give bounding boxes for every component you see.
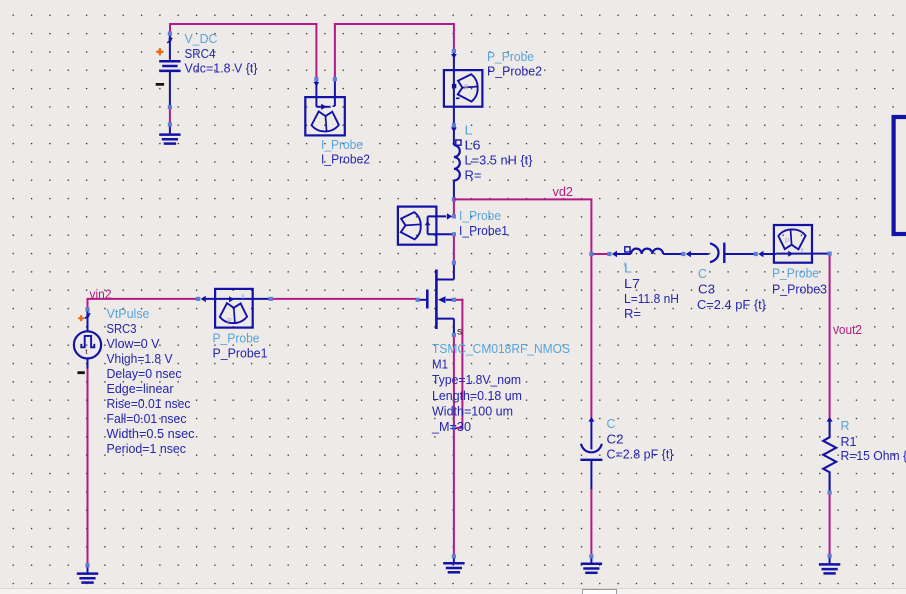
power probe P_Probe3: [754, 225, 832, 263]
label L7 (value L=11.8 nH): [624, 261, 679, 322]
svg-text:V_DC: V_DC: [185, 31, 218, 46]
capacitor C2: [580, 417, 602, 554]
svg-text:I_Probe2: I_Probe2: [321, 152, 370, 167]
current probe I_Probe1: [398, 207, 456, 245]
net label vout2: [833, 322, 862, 337]
svg-text:P_Probe: P_Probe: [487, 49, 534, 64]
net label vin2: [90, 287, 112, 302]
power probe P_Probe2: [444, 49, 483, 132]
svg-text:Rise=0.01 nsec: Rise=0.01 nsec: [107, 396, 191, 411]
voltage source SRC4 V_DC (battery): [156, 32, 181, 110]
svg-text:L6: L6: [465, 138, 481, 153]
label P_Probe1: [213, 331, 268, 361]
svg-text:M1: M1: [432, 357, 448, 372]
svg-text:C: C: [607, 416, 616, 431]
wire: R1 to ground: [829, 495, 831, 554]
svg-text:L=3.5 nH {t}: L=3.5 nH {t}: [465, 153, 534, 168]
svg-text:Period=1 nsec: Period=1 nsec: [107, 441, 187, 456]
svg-text:_M=30: _M=30: [431, 419, 471, 434]
svg-text:R=: R=: [624, 306, 641, 321]
svg-text:P_Probe2: P_Probe2: [487, 64, 542, 79]
svg-text:P: P: [464, 85, 469, 92]
ground below R1: [819, 554, 840, 574]
svg-text:C2: C2: [607, 432, 624, 447]
partial component frame at right edge: [892, 115, 906, 236]
wire: P_Probe1 to M1 gate: [273, 298, 416, 300]
svg-text:C=2.8 pF {t}: C=2.8 pF {t}: [607, 447, 675, 462]
svg-text:P_Probe: P_Probe: [213, 331, 260, 346]
svg-text:I_Probe1: I_Probe1: [459, 223, 508, 238]
wire: SRC3 minus to ground: [87, 369, 89, 564]
pulse source SRC3 VtPulse: [74, 307, 101, 374]
resistor R1: [823, 417, 836, 495]
svg-text:vout2: vout2: [833, 322, 862, 337]
wire vd2: L6 to C2/L7 junction: [454, 198, 592, 252]
label R1 (value R=15 Ohm): [841, 418, 906, 463]
svg-text:R1: R1: [841, 434, 857, 449]
inductor L6: [454, 128, 461, 198]
label SRC4 (V_DC, Vdc value): [185, 31, 259, 76]
wire vin2: SRC3 to P_Probe1: [88, 298, 197, 308]
svg-text:P: P: [227, 318, 232, 325]
power probe P_Probe1: [196, 289, 273, 328]
svg-text:t: t: [85, 347, 87, 356]
transistor M1 (NMOS TSMC_CM018RF_NMOS): [416, 265, 463, 338]
wire: vd2 junction down to C2: [590, 256, 592, 418]
svg-text:L7: L7: [624, 276, 640, 291]
svg-text:R=: R=: [465, 168, 482, 183]
svg-text:R: R: [841, 418, 850, 433]
svg-text:Fall=0.01 nsec: Fall=0.01 nsec: [107, 411, 187, 426]
node vd2 junction at L6 output: [452, 197, 456, 201]
svg-text:Width=100 um: Width=100 um: [432, 403, 513, 418]
label I_Probe2: [321, 137, 370, 167]
wire: I_Probe1 to M1 drain: [452, 236, 456, 265]
inductor L7: [607, 247, 681, 267]
svg-text:C=2.4 pF {t}: C=2.4 pF {t}: [697, 297, 767, 312]
svg-text:L=11.8 nH: L=11.8 nH: [624, 291, 679, 306]
svg-text:L: L: [624, 261, 632, 276]
svg-text:P_Probe1: P_Probe1: [213, 346, 268, 361]
node junction vd2/C2/L7: [589, 252, 593, 256]
svg-text:Vlow=0 V: Vlow=0 V: [107, 336, 160, 351]
svg-text:Edge=linear: Edge=linear: [107, 381, 175, 396]
label C2 (value C=2.8 pF): [607, 416, 675, 462]
svg-text:Length=0.18 um: Length=0.18 um: [432, 388, 522, 403]
ground below SRC3: [77, 563, 98, 583]
svg-text:P_Probe3: P_Probe3: [772, 282, 827, 297]
svg-text:SRC4: SRC4: [185, 46, 216, 61]
svg-text:SRC3: SRC3: [107, 321, 137, 336]
svg-text:C: C: [698, 266, 707, 281]
svg-text:C3: C3: [698, 282, 715, 297]
label I_Probe1: [459, 208, 508, 238]
wire: I_Probe2 minus pin up and over to P_Probe2: [334, 23, 454, 77]
bottom window strip with partial button: [0, 589, 906, 594]
svg-text:L: L: [465, 123, 473, 138]
svg-text:Vdc=1.8 V {t}: Vdc=1.8 V {t}: [185, 61, 259, 76]
ground below M1: [443, 554, 464, 572]
svg-text:I_Probe: I_Probe: [321, 137, 363, 152]
svg-text:vd2: vd2: [553, 184, 574, 199]
wire: junction to L7: [593, 253, 609, 255]
svg-text:Type=1.8V_nom: Type=1.8V_nom: [432, 372, 521, 387]
label L6 (value L=3.5 nH): [465, 123, 534, 183]
svg-text:TSMC_CM018RF_NMOS: TSMC_CM018RF_NMOS: [432, 341, 570, 356]
wire vout2: P_Probe3 to R1: [829, 256, 831, 418]
net label vd2: [553, 184, 574, 199]
svg-text:P: P: [785, 237, 790, 246]
wire: top rail from SRC4 to I_Probe2 plus pin: [169, 23, 316, 79]
svg-text:Vhigh=1.8 V: Vhigh=1.8 V: [107, 351, 173, 366]
wire: M1 bulk to source rail: [454, 299, 464, 429]
label P_Probe2: [487, 49, 542, 79]
svg-text:VtPulse: VtPulse: [107, 306, 150, 321]
ground below SRC4: [159, 122, 180, 143]
wire: M1 source to ground: [452, 337, 456, 554]
capacitor C3: [691, 243, 754, 263]
wire: vd2 node down to I_Probe1: [453, 201, 455, 215]
svg-text:P_Probe: P_Probe: [772, 266, 819, 281]
label M1 parameters: [431, 341, 570, 434]
label C3 (value C=2.4 pF): [697, 266, 767, 312]
svg-text:I_Probe: I_Probe: [459, 208, 501, 223]
node: L7 to C3: [681, 251, 691, 257]
wire: SRC4 minus to ground: [169, 109, 171, 123]
label P_Probe3: [772, 266, 827, 297]
ground below C2: [581, 554, 602, 573]
svg-text:R=15 Ohm {t}: R=15 Ohm {t}: [841, 448, 906, 463]
svg-text:Width=0.5 nsec: Width=0.5 nsec: [107, 426, 195, 441]
current probe I_Probe2: [305, 77, 345, 135]
label SRC3 parameters: [107, 306, 195, 456]
svg-text:Delay=0 nsec: Delay=0 nsec: [107, 366, 182, 381]
